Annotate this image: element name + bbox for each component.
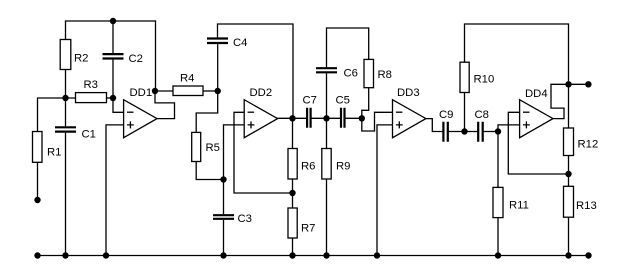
wire DD4 inverting input to R12/R13 divider node <box>508 112 568 174</box>
svg-text:DD1: DD1 <box>130 87 153 99</box>
node DD1 output <box>152 88 158 94</box>
resistor R13 <box>564 174 597 256</box>
svg-text:DD3: DD3 <box>397 87 420 99</box>
resistor R8 <box>362 59 392 118</box>
wire R2 bottom to node <box>65 70 67 99</box>
wire DD4 non-inverting input <box>498 125 520 132</box>
node A R4/C4/R5/DD2 <box>215 88 221 94</box>
op-amp DD3 <box>393 87 426 138</box>
node R2/R3/C1 junction <box>62 95 68 101</box>
resistor R2 <box>60 40 88 70</box>
resistor R10 <box>460 24 569 132</box>
node ground rail C1 junction <box>62 252 68 258</box>
node DD2 output junction <box>289 115 295 121</box>
capacitor C8 <box>475 109 489 142</box>
node ground rail R13 junction <box>565 252 571 258</box>
node B R5/C3/DD2 non-inverting <box>220 176 226 182</box>
node ground rail C3 junction <box>220 252 226 258</box>
resistor R9 <box>322 118 351 255</box>
svg-text:DD4: DD4 <box>525 88 548 100</box>
capacitor C4 <box>207 24 293 118</box>
wire DD3 non-inverting input to ground rail <box>377 125 393 256</box>
node C2/R3/DD1 inverting junction <box>110 95 116 101</box>
svg-text:R6: R6 <box>301 161 315 173</box>
resistor R1 <box>33 132 62 200</box>
svg-text:C5: C5 <box>336 95 350 107</box>
wire top-left feedback loop from R2 top to DD1 output node <box>66 21 156 91</box>
svg-text:C1: C1 <box>82 129 96 141</box>
node input terminal at R1 bottom <box>34 197 40 203</box>
capacitor C7 <box>303 95 317 128</box>
wire R3 right to C2 bottom node <box>107 97 114 99</box>
node C7/C5/C6/R9 junction <box>323 115 329 121</box>
wire C2 bottom plate to node <box>112 59 114 99</box>
svg-text:C9: C9 <box>439 109 453 121</box>
svg-text:R2: R2 <box>74 53 88 65</box>
wire DD3 inverting input stair <box>362 112 393 131</box>
wire DD2 output node down to R6 <box>292 118 294 148</box>
op-amp DD4 <box>520 88 553 138</box>
wire DD1 inverting input <box>113 98 124 112</box>
capacitor C9 <box>439 109 453 142</box>
resistor R11 <box>493 132 529 256</box>
node ground rail output terminal <box>585 252 591 258</box>
wire C8 right to DD4 non-inverting node <box>483 131 498 133</box>
node R12/R13 divider junction <box>565 171 571 177</box>
resistor R4 <box>173 73 203 96</box>
node C5/R8/DD3 inverting junction <box>359 115 365 121</box>
svg-text:R4: R4 <box>180 73 194 85</box>
wire C5 right to node <box>345 117 362 119</box>
node output terminal <box>585 81 591 87</box>
svg-text:C6: C6 <box>344 68 358 80</box>
resistor R7 <box>288 208 315 256</box>
capacitor C2 <box>103 53 143 65</box>
wire C9 right to C8 left <box>448 131 478 133</box>
capacitor C6 <box>316 28 369 118</box>
svg-text:C7: C7 <box>303 95 317 107</box>
node C8/R11/DD4 non-inverting junction <box>495 128 501 134</box>
svg-text:R10: R10 <box>474 74 495 86</box>
wire DD1 output zigzag to output node <box>155 91 175 119</box>
capacitor C5 <box>336 95 350 128</box>
capacitor C1 <box>55 98 96 256</box>
resistor R3 <box>76 79 107 103</box>
svg-text:R12: R12 <box>578 139 599 151</box>
wire DD3 output jog down to C9 <box>425 119 443 132</box>
node R6/R7/DD2 inverting junction <box>289 190 295 196</box>
node ground rail DD3 junction <box>374 252 380 258</box>
wire R6 bottom to node <box>292 179 294 208</box>
wire DD4 output zigzag up to output node <box>551 84 588 118</box>
wire ground rail <box>38 255 589 257</box>
wire node row to R3 left and down-left to R1 top <box>38 98 76 132</box>
svg-text:R7: R7 <box>301 223 315 235</box>
wire DD2 inverting input to R6/R7 node <box>234 112 293 193</box>
wire DD2 output to C7 <box>277 117 307 119</box>
node ground rail DD1 junction <box>103 252 109 258</box>
svg-text:DD2: DD2 <box>250 87 273 99</box>
svg-text:R9: R9 <box>336 161 350 173</box>
wire R5 bottom to node B <box>196 162 223 180</box>
svg-text:R5: R5 <box>206 142 220 154</box>
node DD4 output junction <box>565 81 571 87</box>
node ground rail R9 junction <box>323 252 329 258</box>
wire DD1 node to R4 <box>155 90 174 92</box>
svg-text:C8: C8 <box>475 109 489 121</box>
op-amp DD1 <box>124 87 157 138</box>
wire DD1 non-inverting input to ground rail <box>106 125 124 256</box>
node ground rail input terminal <box>34 252 40 258</box>
svg-text:R13: R13 <box>576 200 597 212</box>
svg-text:R1: R1 <box>47 147 61 159</box>
capacitor C3 <box>213 180 252 256</box>
wire DD2 non-inverting input <box>224 125 245 180</box>
resistor R6 <box>288 149 315 180</box>
svg-text:C2: C2 <box>129 53 143 65</box>
wire C7 right to C5 left <box>311 117 341 119</box>
wire R4 right to node A <box>203 90 218 92</box>
svg-text:R11: R11 <box>509 200 529 212</box>
resistor R5 <box>192 132 220 161</box>
wire C2 top branch <box>112 21 114 54</box>
node C2 top junction <box>110 18 116 24</box>
wire node A stair down to R5 top <box>196 91 218 132</box>
op-amp DD2 <box>244 87 277 138</box>
svg-text:C4: C4 <box>233 37 247 49</box>
node ground rail R11 junction <box>495 252 501 258</box>
resistor R12 <box>564 84 599 174</box>
svg-text:R3: R3 <box>84 79 98 91</box>
svg-text:R8: R8 <box>378 69 392 81</box>
node ground rail R7 junction <box>289 252 295 258</box>
svg-text:C3: C3 <box>238 213 252 225</box>
node C9/C8/R10 junction <box>461 128 467 134</box>
